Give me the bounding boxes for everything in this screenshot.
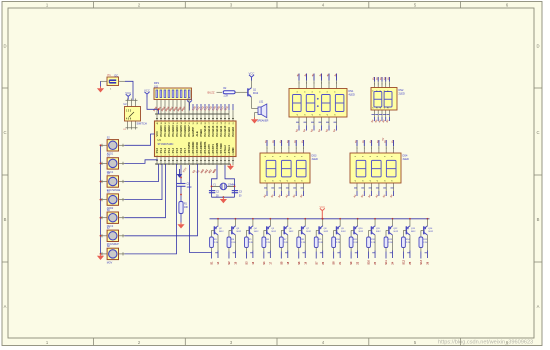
svg-text:P2.3/A11: P2.3/A11 bbox=[219, 125, 223, 136]
svg-text:2.2K: 2.2K bbox=[354, 242, 359, 244]
svg-text:C: C bbox=[3, 130, 6, 135]
svg-text:2.2K: 2.2K bbox=[423, 242, 428, 244]
svg-text:P0.0/AD0: P0.0/AD0 bbox=[159, 125, 163, 137]
svg-text:1: 1 bbox=[296, 148, 297, 150]
svg-text:P3.0/RXD: P3.0/RXD bbox=[191, 142, 195, 154]
svg-text:40: 40 bbox=[157, 122, 159, 124]
svg-text:P0.1/AD1: P0.1/AD1 bbox=[163, 125, 167, 137]
svg-text:1: 1 bbox=[386, 148, 387, 150]
svg-text:MOV: MOV bbox=[107, 261, 113, 264]
svg-text:17: 17 bbox=[221, 153, 223, 155]
svg-text:P2.7/A15: P2.7/A15 bbox=[203, 125, 207, 136]
svg-text:P3.3/INT1: P3.3/INT1 bbox=[203, 141, 207, 153]
svg-text:4: 4 bbox=[392, 180, 394, 181]
svg-text:A: A bbox=[4, 304, 7, 309]
svg-text:2.2K: 2.2K bbox=[301, 242, 306, 244]
svg-text:24: 24 bbox=[221, 122, 223, 124]
svg-text:9: 9 bbox=[373, 90, 375, 91]
svg-text:18: 18 bbox=[225, 153, 227, 155]
svg-text:P2.1/A9: P2.1/A9 bbox=[227, 127, 231, 137]
svg-text:37: 37 bbox=[169, 122, 171, 124]
svg-text:STC90C51RC: STC90C51RC bbox=[158, 143, 174, 146]
svg-text:4: 4 bbox=[355, 180, 357, 181]
svg-text:16: 16 bbox=[217, 153, 219, 155]
svg-text:2.2K: 2.2K bbox=[319, 242, 324, 244]
svg-text:28: 28 bbox=[205, 122, 207, 124]
svg-text:4: 4 bbox=[373, 107, 375, 108]
svg-text:4: 4 bbox=[377, 180, 379, 181]
svg-text:4: 4 bbox=[297, 114, 299, 115]
svg-text:8: 8 bbox=[185, 155, 187, 156]
svg-text:1: 1 bbox=[374, 84, 375, 86]
svg-text:RP1: RP1 bbox=[154, 81, 160, 85]
svg-text:SPEAKER: SPEAKER bbox=[257, 119, 269, 122]
svg-text:9: 9 bbox=[273, 156, 275, 157]
svg-text:2.2K: 2.2K bbox=[406, 242, 411, 244]
svg-text:1: 1 bbox=[364, 148, 365, 150]
svg-text:P3.6/WR: P3.6/WR bbox=[215, 143, 219, 154]
svg-text:22: 22 bbox=[229, 122, 231, 124]
svg-text:2.2K: 2.2K bbox=[231, 242, 236, 244]
svg-text:10K: 10K bbox=[184, 207, 189, 209]
svg-text:P2.5/A13: P2.5/A13 bbox=[211, 125, 215, 136]
svg-text:12: 12 bbox=[201, 153, 203, 155]
svg-text:9: 9 bbox=[287, 156, 289, 157]
svg-text:1: 1 bbox=[321, 83, 322, 85]
svg-text:VCC: VCC bbox=[320, 205, 326, 209]
svg-text:4: 4 bbox=[384, 180, 386, 181]
svg-text:P0.7/AD7: P0.7/AD7 bbox=[187, 125, 191, 137]
svg-text:9: 9 bbox=[327, 91, 329, 92]
svg-text:2.2K: 2.2K bbox=[284, 242, 289, 244]
svg-text:4: 4 bbox=[327, 114, 329, 115]
svg-text:20: 20 bbox=[233, 153, 235, 155]
svg-text:VCC: VCC bbox=[155, 131, 159, 137]
svg-text:9: 9 bbox=[376, 90, 378, 91]
svg-text:P3.7/RD: P3.7/RD bbox=[219, 143, 223, 153]
svg-text:S10: S10 bbox=[368, 260, 371, 265]
svg-text:1: 1 bbox=[371, 148, 372, 150]
svg-text:2.2K: 2.2K bbox=[388, 242, 393, 244]
svg-text:4: 4 bbox=[320, 114, 322, 115]
svg-text:D: D bbox=[536, 44, 539, 49]
svg-text:30: 30 bbox=[197, 122, 199, 124]
svg-text:10: 10 bbox=[193, 153, 195, 155]
svg-text:1: 1 bbox=[306, 83, 307, 85]
svg-text:LS1: LS1 bbox=[259, 101, 264, 104]
svg-text:https://blog.csdn.net/weixin_3: https://blog.csdn.net/weixin_39609623 bbox=[438, 340, 533, 346]
svg-text:4: 4 bbox=[305, 114, 307, 115]
svg-text:P2.6/A14: P2.6/A14 bbox=[207, 125, 211, 136]
svg-text:1 2 3: 1 2 3 bbox=[126, 111, 132, 113]
svg-text:21: 21 bbox=[233, 122, 235, 124]
svg-text:VCC: VCC bbox=[144, 89, 150, 93]
svg-text:2.2K: 2.2K bbox=[214, 242, 219, 244]
svg-text:4: 4 bbox=[302, 180, 304, 181]
svg-text:3LED: 3LED bbox=[312, 158, 318, 161]
svg-text:2.2K: 2.2K bbox=[249, 242, 254, 244]
svg-text:1: 1 bbox=[378, 148, 379, 150]
svg-text:1: 1 bbox=[303, 148, 304, 150]
svg-text:4: 4 bbox=[312, 114, 314, 115]
svg-text:1: 1 bbox=[389, 84, 390, 86]
svg-text:P0.4/AD4: P0.4/AD4 bbox=[175, 125, 179, 137]
svg-text:XTAL1: XTAL1 bbox=[227, 145, 231, 154]
svg-text:9: 9 bbox=[363, 156, 365, 157]
svg-text:P2.2/A10: P2.2/A10 bbox=[223, 125, 227, 136]
svg-text:P1: P1 bbox=[108, 73, 112, 77]
svg-text:P1.0: P1.0 bbox=[155, 147, 159, 153]
svg-text:9: 9 bbox=[388, 90, 390, 91]
svg-text:VCC: VCC bbox=[125, 91, 131, 95]
svg-text:VCC: VCC bbox=[249, 72, 255, 76]
svg-text:P1.6: P1.6 bbox=[179, 147, 183, 153]
svg-text:9: 9 bbox=[305, 91, 307, 92]
svg-text:P1.5: P1.5 bbox=[175, 147, 179, 153]
svg-text:32: 32 bbox=[189, 122, 191, 124]
svg-text:4: 4 bbox=[294, 180, 296, 181]
svg-text:4: 4 bbox=[273, 180, 275, 181]
svg-text:P3.5/T1: P3.5/T1 bbox=[211, 144, 215, 154]
svg-text:VCC: VCC bbox=[187, 98, 192, 101]
svg-text:33: 33 bbox=[185, 122, 187, 124]
svg-text:9: 9 bbox=[320, 91, 322, 92]
svg-text:1: 1 bbox=[329, 83, 330, 85]
svg-text:C: C bbox=[536, 130, 539, 135]
svg-text:7: 7 bbox=[181, 155, 183, 156]
svg-text:4: 4 bbox=[376, 107, 378, 108]
svg-text:P3.4/T0: P3.4/T0 bbox=[207, 144, 211, 154]
svg-text:9: 9 bbox=[370, 156, 372, 157]
svg-text:B: B bbox=[537, 217, 540, 222]
svg-text:1: 1 bbox=[385, 84, 386, 86]
svg-text:1: 1 bbox=[336, 83, 337, 85]
svg-text:26: 26 bbox=[213, 122, 215, 124]
svg-text:2: 2 bbox=[161, 155, 163, 156]
svg-text:4: 4 bbox=[384, 107, 386, 108]
svg-text:14: 14 bbox=[209, 153, 211, 155]
svg-text:2.2K: 2.2K bbox=[266, 242, 271, 244]
svg-text:9: 9 bbox=[265, 156, 267, 157]
svg-text:19: 19 bbox=[229, 153, 231, 155]
svg-text:1: 1 bbox=[378, 84, 379, 86]
svg-text:4: 4 bbox=[335, 114, 337, 115]
svg-text:1: 1 bbox=[314, 83, 315, 85]
svg-text:13: 13 bbox=[205, 153, 207, 155]
svg-text:A: A bbox=[537, 304, 540, 309]
svg-text:S11: S11 bbox=[385, 260, 388, 265]
svg-text:1: 1 bbox=[288, 148, 289, 150]
svg-text:9: 9 bbox=[355, 156, 357, 157]
svg-text:XTAL2: XTAL2 bbox=[223, 145, 227, 154]
svg-text:B: B bbox=[4, 217, 7, 222]
svg-text:P0.2/AD2: P0.2/AD2 bbox=[167, 125, 171, 137]
svg-text:D: D bbox=[3, 44, 6, 49]
svg-text:3LED: 3LED bbox=[403, 158, 409, 161]
svg-text:4LED: 4LED bbox=[349, 94, 355, 97]
svg-text:4: 4 bbox=[370, 180, 372, 181]
svg-text:1: 1 bbox=[357, 148, 358, 150]
svg-text:4: 4 bbox=[287, 180, 289, 181]
svg-text:P1.1: P1.1 bbox=[159, 147, 163, 153]
svg-text:9: 9 bbox=[380, 90, 382, 91]
svg-text:15: 15 bbox=[213, 153, 215, 155]
svg-text:9012: 9012 bbox=[253, 93, 259, 95]
svg-text:P2.4/A12: P2.4/A12 bbox=[215, 125, 219, 136]
svg-text:1: 1 bbox=[393, 148, 394, 150]
svg-text:4: 4 bbox=[280, 180, 282, 181]
svg-text:2.2K: 2.2K bbox=[336, 242, 341, 244]
svg-text:35: 35 bbox=[177, 122, 179, 124]
svg-text:6: 6 bbox=[177, 155, 179, 156]
svg-text:10uF: 10uF bbox=[187, 187, 193, 189]
svg-text:39: 39 bbox=[161, 122, 163, 124]
svg-text:U3: U3 bbox=[158, 138, 162, 142]
svg-text:5: 5 bbox=[173, 155, 175, 156]
svg-text:31: 31 bbox=[193, 122, 195, 124]
svg-text:1: 1 bbox=[299, 83, 300, 85]
svg-text:3: 3 bbox=[165, 155, 167, 156]
svg-text:9: 9 bbox=[297, 91, 299, 92]
svg-text:9: 9 bbox=[189, 155, 191, 156]
svg-text:9: 9 bbox=[302, 156, 304, 157]
svg-text:4: 4 bbox=[265, 180, 267, 181]
svg-text:1: 1 bbox=[267, 148, 268, 150]
svg-text:9: 9 bbox=[312, 91, 314, 92]
svg-text:2LED: 2LED bbox=[399, 93, 405, 96]
svg-text:P1.4: P1.4 bbox=[171, 147, 175, 153]
svg-text:P1.3: P1.3 bbox=[167, 147, 171, 153]
svg-text:4: 4 bbox=[380, 107, 382, 108]
svg-text:5V: 5V bbox=[383, 137, 385, 140]
svg-text:P1.2: P1.2 bbox=[163, 147, 167, 153]
svg-text:9: 9 bbox=[384, 156, 386, 157]
svg-text:36: 36 bbox=[173, 122, 175, 124]
svg-text:27: 27 bbox=[209, 122, 211, 124]
svg-text:1: 1 bbox=[281, 148, 282, 150]
svg-text:9: 9 bbox=[335, 91, 337, 92]
svg-text:1: 1 bbox=[274, 148, 275, 150]
svg-text:GND: GND bbox=[231, 147, 235, 153]
svg-text:RST/VPD: RST/VPD bbox=[187, 142, 191, 153]
svg-text:29: 29 bbox=[201, 122, 203, 124]
svg-text:4: 4 bbox=[388, 107, 390, 108]
svg-text:DC: DC bbox=[115, 74, 119, 77]
svg-text:4: 4 bbox=[363, 180, 365, 181]
svg-text:9: 9 bbox=[377, 156, 379, 157]
svg-text:P3.1/TXD: P3.1/TXD bbox=[195, 142, 199, 153]
svg-text:P0.3/AD3: P0.3/AD3 bbox=[171, 125, 175, 137]
svg-text:1.2K: 1.2K bbox=[223, 95, 228, 97]
svg-text:23: 23 bbox=[225, 122, 227, 124]
svg-text:P2.0/A8: P2.0/A8 bbox=[231, 127, 235, 137]
svg-text:25: 25 bbox=[217, 122, 219, 124]
svg-text:9: 9 bbox=[384, 90, 386, 91]
svg-text:PSEN: PSEN bbox=[199, 129, 203, 136]
svg-text:P3.2/INT0: P3.2/INT0 bbox=[199, 141, 203, 153]
svg-text:EA/VPP: EA/VPP bbox=[191, 127, 195, 137]
svg-text:S12: S12 bbox=[403, 260, 406, 265]
svg-text:1: 1 bbox=[382, 84, 383, 86]
svg-text:S13: S13 bbox=[420, 260, 423, 265]
svg-text:9: 9 bbox=[294, 156, 296, 157]
svg-text:2.2K: 2.2K bbox=[371, 242, 376, 244]
svg-text:BUZZ: BUZZ bbox=[208, 90, 215, 94]
svg-text:P0.5/AD5: P0.5/AD5 bbox=[179, 125, 183, 137]
svg-text:4: 4 bbox=[169, 155, 171, 156]
svg-text:P1.7: P1.7 bbox=[183, 147, 187, 153]
svg-text:P0.6/AD6: P0.6/AD6 bbox=[183, 125, 187, 137]
svg-text:34: 34 bbox=[181, 122, 183, 124]
svg-text:38: 38 bbox=[165, 122, 167, 124]
svg-text:SWITCH: SWITCH bbox=[137, 121, 147, 125]
svg-text:9: 9 bbox=[392, 156, 394, 157]
svg-text:1: 1 bbox=[157, 155, 159, 156]
svg-text:ALE: ALE bbox=[195, 131, 199, 136]
svg-text:9: 9 bbox=[280, 156, 282, 157]
svg-text:4 5 6: 4 5 6 bbox=[126, 118, 132, 121]
svg-text:11: 11 bbox=[197, 154, 199, 156]
